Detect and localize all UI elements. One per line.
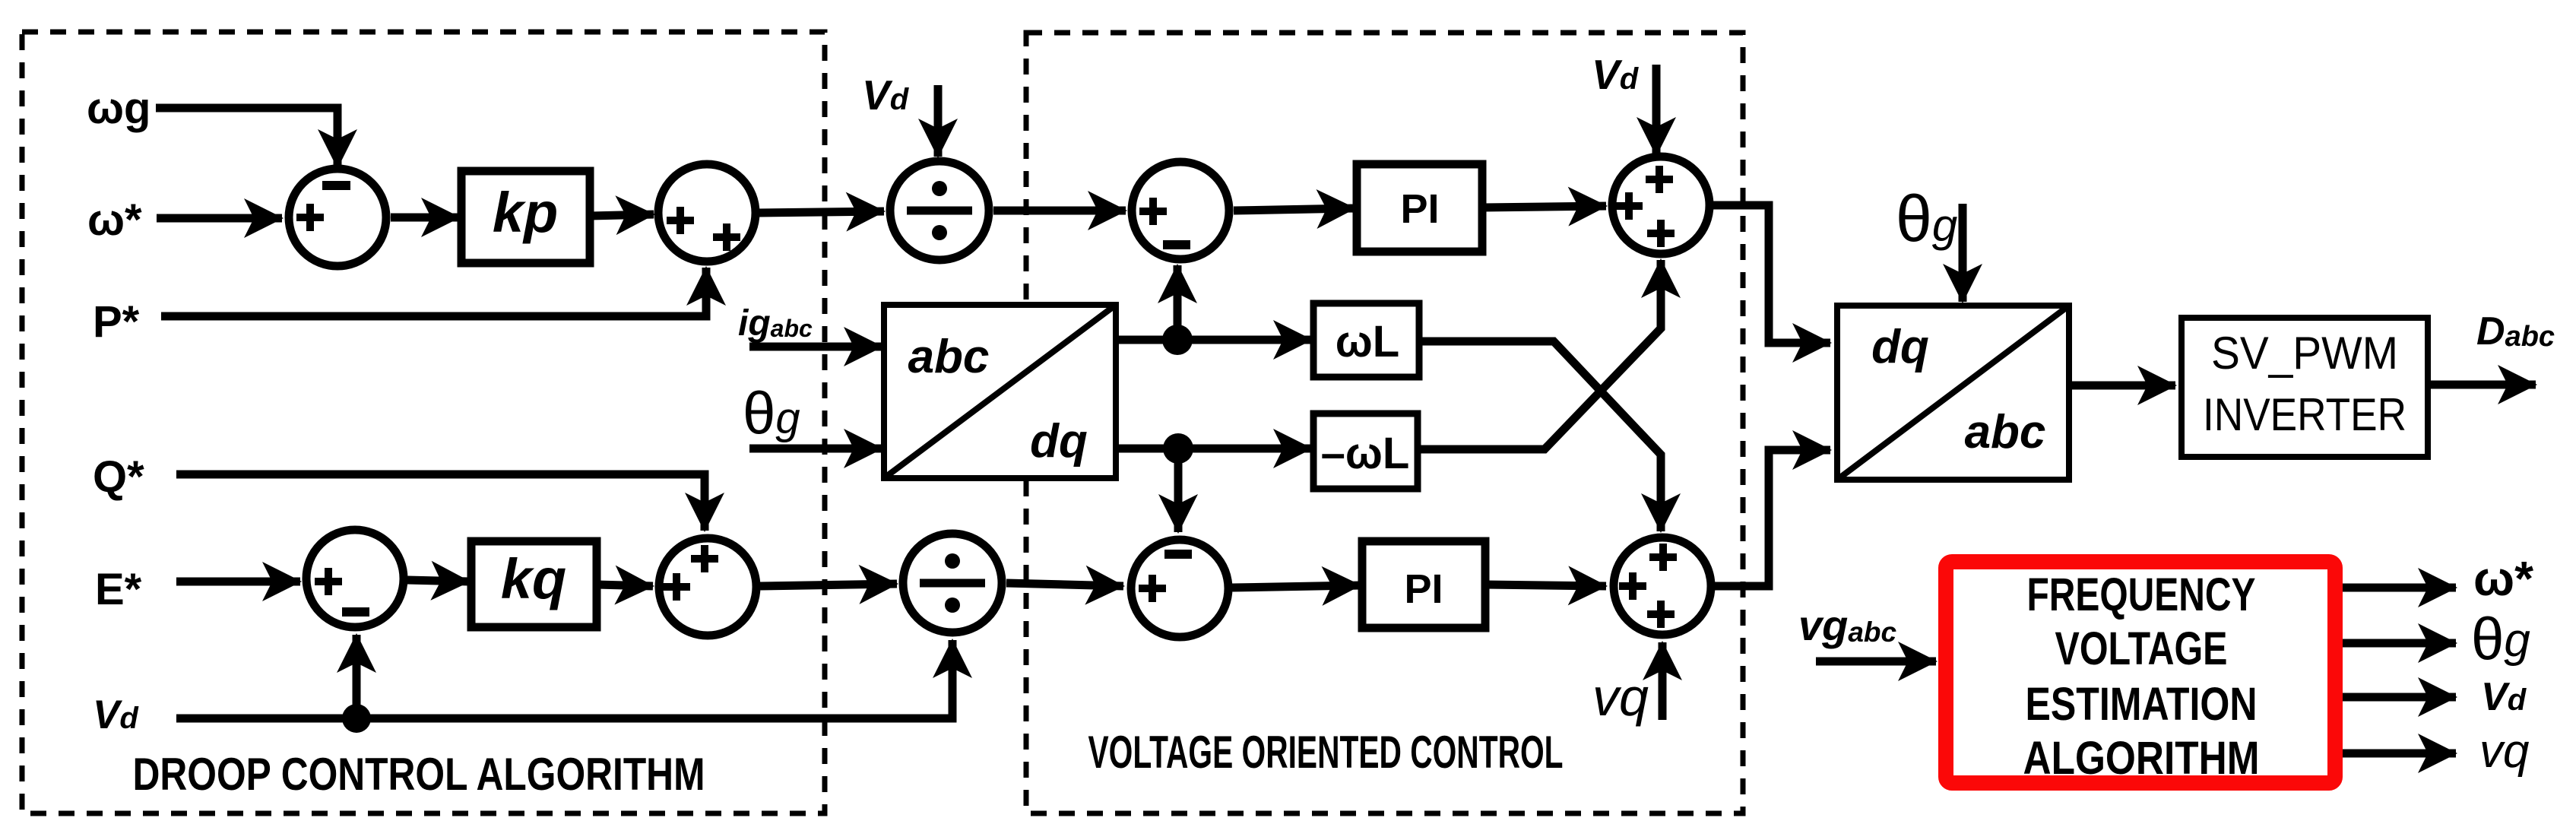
svg-text:VOLTAGE: VOLTAGE [2055, 623, 2228, 674]
svg-text:DROOP CONTROL ALGORITHM: DROOP CONTROL ALGORITHM [133, 749, 705, 800]
svg-text:dq: dq [1871, 321, 1929, 373]
svg-text:ωL: ωL [1336, 317, 1399, 366]
svg-text:PI: PI [1400, 186, 1439, 232]
svg-text:SV_PWM: SV_PWM [2211, 328, 2398, 379]
svg-text:P*: P* [93, 297, 140, 347]
svg-text:Q*: Q* [93, 452, 144, 502]
svg-text:INVERTER: INVERTER [2203, 389, 2406, 440]
svg-text:–ωL: –ωL [1321, 429, 1410, 478]
svg-text:ALGORITHM: ALGORITHM [2023, 732, 2260, 784]
svg-text:θg: θg [2471, 605, 2530, 672]
svg-text:vq: vq [2479, 725, 2530, 778]
svg-text:FREQUENCY: FREQUENCY [2027, 569, 2256, 620]
svg-text:VOLTAGE ORIENTED CONTROL: VOLTAGE ORIENTED CONTROL [1088, 727, 1564, 778]
svg-text:ωg: ωg [87, 84, 151, 133]
svg-text:E*: E* [95, 565, 142, 614]
svg-text:vq: vq [1592, 667, 1649, 727]
svg-text:kq: kq [501, 547, 566, 610]
svg-text:PI: PI [1404, 566, 1443, 612]
svg-text:kp: kp [493, 181, 558, 244]
svg-text:abc: abc [908, 331, 990, 383]
svg-text:dq: dq [1030, 415, 1088, 468]
svg-text:ESTIMATION: ESTIMATION [2026, 678, 2258, 730]
svg-text:ω*: ω* [87, 195, 142, 245]
svg-text:abc: abc [1965, 406, 2046, 458]
svg-text:ω*: ω* [2473, 551, 2533, 606]
